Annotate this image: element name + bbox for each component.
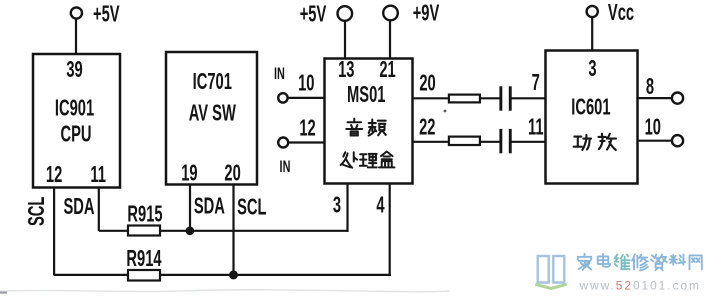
svg-text:20: 20 (419, 71, 435, 96)
svg-text:10: 10 (645, 115, 661, 140)
svg-text:11: 11 (90, 163, 106, 188)
svg-text:R914: R914 (126, 247, 161, 272)
svg-text:3: 3 (588, 57, 596, 82)
svg-text:R915: R915 (127, 202, 162, 227)
svg-text:20: 20 (224, 161, 240, 186)
svg-text:8: 8 (646, 75, 654, 100)
svg-text:11: 11 (528, 115, 544, 140)
svg-text:SCL: SCL (25, 196, 50, 226)
svg-text:CPU: CPU (60, 122, 91, 147)
svg-text:SDA: SDA (194, 194, 225, 219)
svg-text:12: 12 (46, 163, 62, 188)
svg-text:21: 21 (379, 58, 396, 83)
svg-text:MS01: MS01 (347, 83, 386, 108)
svg-text:12: 12 (299, 116, 315, 141)
svg-text:IC901: IC901 (55, 96, 94, 121)
svg-text:IC701: IC701 (193, 70, 232, 95)
svg-text:13: 13 (338, 58, 355, 83)
svg-text:+5V: +5V (300, 2, 327, 27)
svg-text:+5V: +5V (93, 2, 120, 27)
svg-text:IN: IN (280, 158, 291, 177)
svg-text:SDA: SDA (63, 195, 94, 220)
svg-text:4: 4 (376, 193, 384, 218)
svg-text:www.520101.com: www.520101.com (579, 279, 701, 293)
svg-text:22: 22 (419, 115, 435, 140)
svg-text:10: 10 (298, 71, 314, 96)
svg-text:Vcc: Vcc (608, 1, 634, 26)
svg-text:+9V: +9V (413, 1, 440, 26)
svg-text:19: 19 (181, 161, 198, 186)
svg-text:39: 39 (66, 58, 83, 83)
svg-text:IN: IN (274, 64, 285, 83)
svg-text:3: 3 (333, 193, 341, 218)
svg-text:AV SW: AV SW (189, 101, 237, 126)
svg-text:IC601: IC601 (571, 95, 610, 120)
svg-text:SCL: SCL (237, 195, 267, 220)
svg-text:7: 7 (532, 71, 540, 96)
